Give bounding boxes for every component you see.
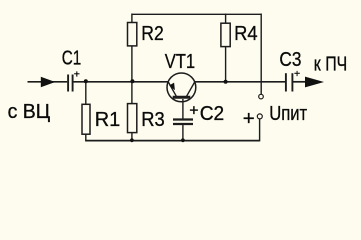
wire: R1 top lead [85,82,87,105]
svg-text:R4: R4 [234,22,258,45]
wire: collector line transistor to C3 [195,81,286,83]
svg-text:R1: R1 [95,108,121,131]
capacitor C1 [68,75,73,92]
node A: junction C1/R1 [84,79,88,83]
node: R3 bottom junction [130,138,134,142]
base bar [173,96,191,99]
resistor R1 [82,104,90,134]
svg-text:C1: C1 [62,46,82,69]
resistor R3 [128,104,137,133]
terminal: Upit circle [257,114,262,119]
wire: R3 bottom lead [131,133,133,141]
svg-text:с ВЦ: с ВЦ [8,100,51,123]
svg-text:к ПЧ: к ПЧ [314,52,348,75]
wire: R2 top lead [131,14,133,23]
wire: bottom ground rail [85,140,260,142]
svg-text:R3: R3 [141,108,165,131]
svg-text:+: + [189,102,198,119]
wire: input line from left edge to C1 [28,81,68,83]
wire: top supply rail [132,13,261,15]
capacitor C3 [286,73,293,91]
wire: Uout terminal lower stub [259,119,261,141]
emitter lead with arrow (PNP, points to base) [168,82,176,96]
wire: R4 bottom lead [225,46,227,81]
wire: R1 bottom lead [85,134,87,140]
wire: C2 bottom lead [182,125,184,141]
output arrow [305,77,324,88]
node: C2 bottom junction [181,138,185,142]
svg-text:VT1: VT1 [165,50,196,73]
resistor R2 [128,23,137,46]
svg-text:+: + [74,69,80,81]
capacitor C2 (polarized) [173,120,193,125]
transistor VT1 [167,73,196,102]
wire: C3 to output arrow [293,81,307,83]
svg-text:+: + [243,107,255,130]
node B: junction R2/R3/emitter line [130,79,134,83]
svg-text:C2: C2 [200,102,225,125]
wire: right rail drop to Uout terminal [260,14,262,95]
node: collector/R4 junction [224,80,228,84]
wire: main horizontal line C1 to transistor emitter [73,81,168,83]
resistor R4 [221,23,230,46]
svg-text:Uпит: Uпит [269,102,307,125]
wire: C2 top lead (base) [182,99,184,119]
svg-text:C3: C3 [279,48,301,71]
wire: R4 top lead [225,14,227,24]
collector lead [187,82,195,96]
svg-text:R2: R2 [141,22,164,45]
wire: R2 bottom lead / R3 top lead vertical [131,46,133,104]
input arrow [41,77,55,88]
terminal: supply top circle [259,94,264,99]
